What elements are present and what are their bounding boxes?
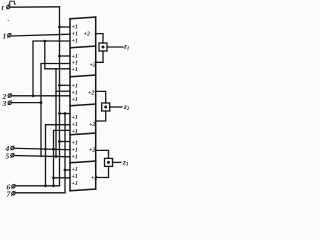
adder cell block b4/b5 edge bbox=[70, 133, 96, 135]
wire b2 bottom input riser bbox=[45, 41, 70, 69]
wire b1 bottom input riser from wire2 bbox=[33, 41, 70, 96]
junction dot wire3 end bbox=[40, 101, 43, 104]
junction dot wire5 end bbox=[55, 155, 58, 158]
svg-text:+1: +1 bbox=[72, 147, 78, 153]
svg-text:+1: +1 bbox=[72, 67, 78, 73]
wire b6 top input riser bbox=[64, 114, 66, 193]
svg-text:+1: +1 bbox=[72, 122, 78, 128]
svg-text:+2: +2 bbox=[90, 63, 96, 69]
terminal 6 bbox=[12, 185, 15, 188]
carry loop 2 (b3 to b4) bbox=[96, 91, 106, 103]
junction dot t-b2 bbox=[58, 55, 61, 58]
svg-text:+1: +1 bbox=[72, 167, 78, 173]
wire b4 middle input riser bbox=[46, 125, 71, 186]
wire t bus vertical bbox=[59, 7, 61, 186]
terminal 5 bbox=[11, 154, 14, 157]
wire b3 middle input riser from b2 bottom line bbox=[55, 69, 57, 157]
terminal t bbox=[7, 5, 10, 8]
wire z1 output bbox=[107, 46, 123, 48]
svg-text:z2: z2 bbox=[123, 103, 130, 112]
junction dot t-b1 bbox=[58, 26, 61, 29]
junction dot wire6 end2 bbox=[52, 184, 55, 187]
paper speck bbox=[8, 20, 9, 21]
junction dot t-b5 bbox=[58, 140, 61, 143]
svg-text:+1: +1 bbox=[72, 129, 78, 135]
svg-text:+1: +1 bbox=[72, 61, 78, 67]
square element S1 bbox=[99, 43, 107, 51]
svg-text:+1: +1 bbox=[72, 54, 78, 60]
wire b6 middle input bbox=[54, 177, 71, 179]
svg-text:+2: +2 bbox=[88, 91, 94, 97]
wire b4 bottom input riser bbox=[54, 130, 71, 185]
wire z3 output bbox=[113, 161, 122, 163]
adder cell block column right edge bbox=[95, 17, 97, 189]
junction dot wire6 bbox=[44, 184, 47, 187]
wire b3 top input bbox=[60, 84, 71, 86]
terminal 2 bbox=[8, 94, 11, 97]
wire t horizontal bbox=[10, 6, 59, 8]
terminal 4 bbox=[11, 146, 14, 149]
svg-text:+1: +1 bbox=[72, 154, 78, 160]
wire b2 top input bbox=[60, 55, 71, 57]
wire z2 output bbox=[110, 106, 122, 108]
square element S2 bbox=[102, 103, 110, 111]
wire 6 bbox=[15, 185, 59, 187]
svg-text:+1: +1 bbox=[72, 97, 78, 103]
terminal 7 bbox=[12, 192, 15, 195]
svg-text:1: 1 bbox=[3, 32, 7, 41]
wire 1 to b1 middle input bbox=[11, 34, 70, 36]
terminal 1 bbox=[8, 34, 11, 37]
svg-text:+2: +2 bbox=[89, 122, 95, 128]
carry loop 3 (b5 to b6) bbox=[96, 150, 109, 158]
svg-text:5: 5 bbox=[6, 152, 10, 161]
terminal 3 bbox=[8, 101, 11, 104]
svg-text:+1: +1 bbox=[72, 91, 78, 97]
svg-text:+2: +2 bbox=[89, 148, 95, 154]
junction dot b1 bottom line bbox=[44, 40, 47, 43]
wire b3 middle input bbox=[56, 90, 70, 92]
svg-text:3: 3 bbox=[2, 99, 7, 108]
svg-text:+1: +1 bbox=[72, 32, 78, 38]
wire 7 bbox=[15, 192, 65, 194]
adder cell block b3/b4 edge bbox=[70, 104, 96, 106]
adder cell block b6 bottom edge bbox=[70, 189, 96, 191]
svg-text:+1: +1 bbox=[72, 38, 78, 44]
svg-text:+1: +1 bbox=[72, 83, 78, 89]
wire b1 top input bbox=[60, 26, 71, 28]
wire 5 to b5 bottom input bbox=[14, 156, 70, 157]
junction dot b4 mid cross bbox=[55, 123, 58, 126]
wire 3 bbox=[12, 102, 42, 104]
svg-text:7: 7 bbox=[7, 190, 11, 199]
junction dot wire4 cross2 bbox=[44, 148, 47, 151]
wire b6 top input bbox=[65, 169, 70, 171]
junction dot t-b3 bbox=[58, 84, 61, 87]
wire b4 top input bbox=[60, 113, 71, 115]
wire 4 to b5 middle input bbox=[14, 148, 70, 149]
junction dot b6 top bbox=[64, 169, 67, 172]
svg-text:+1: +1 bbox=[72, 141, 78, 147]
svg-text:z3: z3 bbox=[122, 159, 129, 168]
adder cell block column left edge bbox=[69, 19, 71, 191]
svg-text:+1: +1 bbox=[72, 174, 78, 180]
svg-text:t: t bbox=[2, 3, 5, 12]
junction dot b6 mid branch bbox=[52, 176, 55, 179]
adder cell block b1/b2 edge bbox=[70, 46, 96, 48]
pulse symbol above t bbox=[9, 1, 16, 4]
svg-text:+1: +1 bbox=[72, 181, 78, 187]
adder cell block b2/b3 edge bbox=[70, 75, 96, 77]
junction dot wire2-b1 bbox=[32, 94, 35, 97]
svg-text:+2: +2 bbox=[84, 32, 90, 38]
junction dot t-b4 bbox=[58, 112, 61, 115]
svg-text:+1: +1 bbox=[72, 115, 78, 121]
wire b2 middle input riser bbox=[41, 64, 70, 157]
svg-text:+2: +2 bbox=[91, 176, 97, 182]
junction dot b4 top riser bbox=[64, 112, 67, 115]
wire 2 to b3 bottom input bbox=[12, 95, 71, 97]
wire b5 top input bbox=[60, 141, 71, 143]
junction dot wire4 cross3 bbox=[52, 148, 55, 151]
adder cell block b5/b6 edge bbox=[70, 161, 96, 163]
square element S3 bbox=[105, 158, 113, 166]
svg-text:z1: z1 bbox=[123, 43, 129, 52]
carry loop 1 (b1 to b2) bbox=[96, 34, 104, 43]
adder cell block b1 top edge bbox=[70, 17, 96, 19]
svg-text:+1: +1 bbox=[72, 25, 78, 31]
